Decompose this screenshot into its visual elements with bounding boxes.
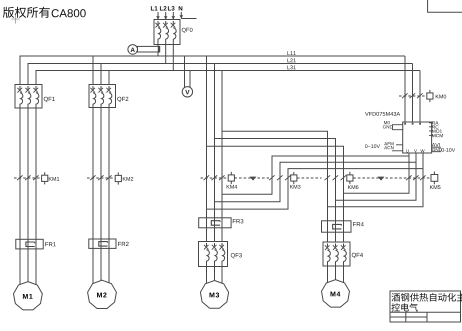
label QF4 [352,253,363,258]
motor M1 [14,282,43,310]
wire L3 arrow [172,12,176,20]
registration cross mark [12,15,20,24]
wire branch to QF4 phase1 [222,131,328,232]
wire L21 drop to VFD S [412,64,414,123]
wire bus L21 to QF2 [100,64,102,85]
wire QF0 pole3 to bus L31 [172,45,174,71]
wire N stub [181,18,196,20]
label L11 [287,51,295,55]
wire QF0 pole2 to bus L21 [165,45,167,64]
drawing frame corner top-right [428,0,462,12]
contactor KM3 [269,172,297,184]
node L3 label [168,6,175,10]
VFD pin RC [429,125,439,128]
VFD pin M0 [384,121,390,124]
wire interlock KM6-KM5 [353,177,431,179]
label L31 [287,65,295,69]
wire VFD W to KM3 [288,169,423,178]
wire QF1 to FR1 phase3 [35,108,37,249]
wire N arrow [180,12,184,19]
interlock marker 1 [250,177,257,181]
wire KM3 out phase2 [215,178,281,202]
label L21 [287,58,295,62]
label QF3 [231,253,242,258]
thermal relay FR1 [16,239,43,249]
node L1 label [151,6,158,10]
wire QF2 to FR2 phase3 [108,108,110,249]
label KM3 [290,185,300,189]
label 0-10V right [442,148,456,152]
breaker QF4 [323,242,350,266]
bus L11 [20,55,406,57]
wire VFD V to KM5 [415,153,417,178]
wire bus L21 to KM4 [214,64,216,228]
wire QF1 to FR1 phase1 [19,108,21,249]
wire bus L11 to voltmeter [184,56,186,87]
wire L31 drop to VFD T [419,71,421,123]
wire L2 arrow [164,12,168,20]
ammeter bar to phase L1 [138,46,160,53]
wire VFD U to KM3 [272,156,409,178]
wire FR1 to motor M1 [20,249,36,285]
wire KM5 out phase3 [328,178,424,207]
contactor KM6 [325,172,354,184]
wire bus L11 to QF2 [92,56,94,85]
VFD pin RA [429,121,438,124]
wire VFD W to KM5 [422,153,424,178]
wire bus L11 to QF1 [19,56,21,85]
thermal relay FR2 [89,239,116,248]
breaker QF0 [154,20,180,45]
wire L1 arrow [156,12,160,20]
VFD pin GND left [383,125,403,130]
label KM2 [123,177,133,181]
inverter U1 VFD075M43A box [403,122,432,153]
wire branch to QF4 phase2 [215,139,336,233]
wire KM3 out phase3 [207,178,289,209]
wire QF2 to FR2 phase1 [92,108,94,249]
wire QF1 to FR1 phase2 [27,108,29,249]
wire QF2 to FR2 phase2 [100,108,102,249]
wire L11 drop to VFD R [404,56,406,122]
label QF1 [44,97,55,102]
VFD pin labels U V W [406,149,424,152]
contactor KM1 [14,172,48,184]
label KM5 [430,185,440,189]
wire bus L11 to KM4 [206,56,208,228]
VFD pin MCM [429,134,443,137]
bus L21 [28,63,413,65]
ammeter A [128,45,138,55]
label VFD075M43A [365,112,400,116]
watermark text 版权所有CA800 [3,7,86,18]
node L2 label [160,6,167,10]
wire VFD V to KM3 [280,162,416,178]
VFD pin GND right [432,148,442,152]
wire QF3 to motor M3 [207,267,223,285]
label KM6 [348,185,358,189]
wire interlock KM3-KM6 [297,177,322,179]
label FR3 [233,219,244,223]
bus L31 [36,70,421,72]
label QF0 [182,28,193,33]
contactor KM2 [87,172,121,184]
wire KM5 out phase2 [336,178,417,200]
motor M3 [200,281,228,309]
VFD pin AVI [432,143,441,147]
contactor KM0 [399,90,433,102]
wire FR2 to motor M2 [93,248,109,284]
node N label [179,6,183,10]
title block frame [390,291,461,322]
VFD pin AFM [384,142,402,145]
wire branch to QF4 phase3 [207,146,344,232]
motor M4 [322,280,350,308]
wire bus L31 to QF1 [35,71,37,85]
label FR1 [45,242,56,246]
wire bus L31 to KM4 [221,71,223,228]
wire VFD U to KM5 [408,153,410,178]
label FR4 [353,222,364,226]
VFD pin ACN [384,146,402,151]
title text row1 酒钢供热自动化主 [392,293,462,302]
label KM0 [436,95,446,99]
breaker QF3 [199,242,228,267]
wire bus L21 to QF1 [27,64,29,85]
label QF2 [117,97,128,102]
thermal relay FR3 [199,218,231,228]
wire QF0 pole1 to bus L11 [157,45,159,57]
wire QF4 to motor M4 [328,266,344,283]
thermal relay FR4 [322,221,352,232]
wire KM3 out phase1 [222,178,272,194]
wire KM5 out phase1 [344,178,410,193]
title text row2 控电气 [391,303,417,311]
voltmeter V [182,87,192,97]
breaker QF2 [89,85,116,108]
label KM1 [49,177,59,181]
wire bus L31 to voltmeter [189,71,191,89]
wire bus L31 to QF2 [108,71,110,85]
interlock marker 2 [378,177,385,181]
motor M2 [88,280,117,308]
label 0~10V left [365,144,380,148]
wire interlock KM4-KM3 [234,177,269,179]
contactor KM4 [201,172,235,184]
VFD pin marks R S T [404,123,421,125]
label KM4 [227,185,238,189]
label FR2 [118,242,129,246]
breaker QF1 [15,85,42,109]
wire FR4 to QF4 [328,232,344,242]
VFD pin MO1 [429,129,442,132]
contactor KM5 [406,172,438,185]
wire FR3 to QF3 [207,228,223,242]
